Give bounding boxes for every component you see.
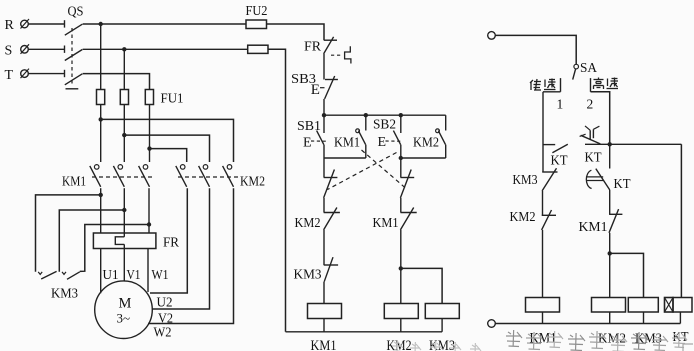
wire W branch to KM3 contact — [80, 225, 149, 272]
time relay KT delay arc symbol — [586, 169, 610, 190]
label high speed — [594, 78, 619, 90]
button interlock SB2 NC in KM1 branch — [324, 170, 338, 198]
svg-text:KM2: KM2 — [240, 175, 265, 190]
coil KT box with cross — [665, 298, 674, 313]
svg-text:E: E — [378, 135, 387, 150]
wire W1 to motor — [147, 249, 149, 293]
svg-text:FU1: FU1 — [161, 92, 184, 107]
svg-text:SA: SA — [580, 61, 598, 76]
switch QS pole R — [65, 20, 83, 35]
KM1 linkage dashed — [92, 176, 152, 178]
svg-text:W1: W1 — [152, 267, 169, 282]
node SB2 branch — [399, 113, 403, 117]
node S drop junction — [122, 47, 126, 51]
wire node to SB2 — [400, 115, 402, 133]
node V branch to KM3 — [122, 208, 126, 212]
contact KM2 interlock NC — [324, 208, 340, 230]
wire phase1 below FU1 — [100, 105, 102, 163]
coil KM2 — [384, 304, 418, 319]
svg-text:3~: 3~ — [117, 311, 131, 326]
watermark corner mark — [683, 344, 693, 351]
svg-text:SB2: SB2 — [373, 118, 396, 133]
svg-text:T: T — [5, 68, 14, 83]
SB2 actuator E- — [378, 135, 401, 150]
wire KM1 interlock to KM2 coil — [400, 230, 402, 304]
svg-text:KM3: KM3 — [513, 172, 538, 187]
KM2 linkage dashed — [178, 176, 238, 178]
svg-text:KT: KT — [614, 176, 632, 191]
wire T after QS — [83, 74, 150, 90]
wire branch to KM3 coil — [401, 268, 442, 303]
button SB2 normally open start — [393, 131, 400, 145]
wire SB2/KM2 bottom join — [401, 157, 446, 159]
wire control bottom bus — [286, 331, 443, 333]
svg-text:1: 1 — [557, 97, 564, 112]
QS linkage bottom bar — [66, 88, 79, 90]
input terminal S — [21, 44, 30, 54]
wire left branch to interlock — [323, 158, 325, 178]
wire KT coil to bus — [679, 312, 681, 324]
wire KM3 NC to KM1 coil — [323, 282, 325, 304]
svg-text:KM1: KM1 — [579, 219, 608, 234]
coil KM2 right — [592, 298, 626, 313]
wire U branch to KM3 contact — [36, 195, 101, 272]
time relay KT delayed contact fork symbol — [580, 126, 601, 144]
wire position 1 to branch — [543, 91, 561, 93]
contactor KM1 pole 2 — [113, 165, 124, 187]
wire SB1 to join — [323, 145, 325, 158]
svg-text:KM2: KM2 — [510, 209, 536, 224]
wire V2 from motor — [152, 188, 209, 309]
wire KM1 coil right to bus — [542, 312, 544, 324]
contact KM1 NC high branch — [609, 209, 622, 233]
wire FU2 lower to bottom bus — [268, 49, 286, 332]
wire FR to SB3 — [323, 54, 325, 80]
coil KM1 — [308, 304, 342, 319]
svg-text:E: E — [311, 82, 320, 98]
wire KM2 interlock to KM3 NC — [323, 230, 325, 265]
terminal right bottom — [488, 320, 496, 328]
node KM3 coil right branch — [608, 251, 612, 255]
svg-text:KM1: KM1 — [311, 338, 337, 351]
svg-text:U1: U1 — [103, 267, 119, 282]
contactor KM3 shorting contact 2 — [62, 272, 80, 280]
input terminal R — [21, 19, 30, 29]
SA position 2 contact — [590, 78, 592, 92]
contactor KM2 pole 1 — [176, 165, 187, 187]
wire branch to KM3 coil right — [610, 253, 644, 297]
wire phase2 below FU1 — [123, 105, 125, 163]
svg-text:FR: FR — [163, 236, 180, 251]
wire KM2 NC to KM1 coil right — [542, 230, 544, 298]
svg-text:KM1: KM1 — [373, 216, 399, 231]
svg-text:E: E — [303, 136, 312, 151]
wire R drop to FU1 — [100, 24, 102, 90]
QS linkage dashed — [71, 28, 73, 85]
node KM3 coil branch — [399, 266, 403, 270]
svg-text:KT: KT — [585, 150, 603, 165]
wire KT NC to KM3 NC — [542, 92, 544, 172]
svg-text:KM1: KM1 — [334, 135, 360, 150]
contactor KM2 pole 2 — [199, 165, 210, 187]
button interlock SB1 NC in KM2 branch — [400, 170, 414, 198]
svg-text:KM2: KM2 — [387, 338, 412, 351]
wire phase1 branch to KM2 pole3 — [101, 119, 234, 162]
contactor KM2 pole 3 — [223, 165, 234, 187]
wire T terminal to QS — [28, 73, 64, 75]
wire SB2 to join — [400, 145, 402, 158]
node phase3 to KM2 branch — [147, 146, 151, 150]
wire rail corner to KM2 aux — [445, 115, 447, 130]
contact KM3 NC right — [542, 168, 557, 191]
node SB2 join — [399, 156, 403, 160]
contact KM1 auxiliary NO — [356, 129, 366, 145]
wire SB3 to node A — [323, 99, 325, 115]
wire S after QS to FU2 — [83, 48, 248, 50]
contactor KM3 shorting contact 1 — [38, 271, 56, 279]
svg-text:KM1: KM1 — [62, 175, 86, 190]
switch QS pole T — [65, 70, 83, 85]
node A SB1 branch — [322, 113, 326, 117]
contactor KM1 pole 1 — [90, 165, 101, 187]
wire KM3 coil to bus — [441, 319, 443, 332]
wire right bottom bus — [495, 323, 680, 325]
svg-text:KM3: KM3 — [294, 268, 322, 283]
wire far right drop to KT coil — [680, 144, 682, 297]
wire KM1 coil to bus — [323, 319, 325, 332]
svg-text:M: M — [119, 296, 132, 312]
wire right branch to interlock — [400, 158, 402, 178]
wire KM1 aux to join — [365, 145, 367, 158]
wire V branch to KM3 contact — [59, 210, 124, 272]
wire high branch to delay contact — [609, 144, 611, 168]
wire node A to SB1 — [323, 115, 325, 133]
fuse FU2 lower — [248, 45, 268, 53]
svg-text:KT: KT — [551, 153, 569, 168]
contact KM2 auxiliary NO — [436, 129, 446, 145]
svg-text:2: 2 — [587, 97, 594, 112]
SB3 actuator E- — [311, 82, 325, 98]
wire KM1 pole2 to FR — [123, 188, 125, 237]
svg-text:S: S — [5, 44, 13, 59]
FR heater element — [115, 237, 124, 245]
wire S terminal to QS — [28, 48, 64, 50]
svg-text:R: R — [5, 18, 15, 33]
button SB1 normally open start — [317, 131, 324, 145]
wire phase3 branch to KM2 pole1 — [150, 149, 187, 162]
wire to KM1 aux contact — [365, 115, 367, 130]
wire V1 to motor upper — [123, 244, 125, 281]
relay contact KT NC low speed branch — [543, 144, 568, 153]
wire KM2 coil to bus — [400, 319, 402, 332]
wire W2 from motor — [148, 188, 234, 323]
contact KM3 NC in KM1 branch — [324, 257, 338, 282]
wire U1 to motor — [100, 249, 102, 294]
wire KM1 NC to KM2 coil right — [609, 233, 611, 298]
wire U2 from motor — [150, 188, 187, 293]
wire between interlocks left — [323, 198, 325, 213]
wire KT row to far right — [585, 143, 681, 145]
node KT junction high branch — [608, 142, 612, 146]
FR contact linkage dashes — [331, 54, 341, 56]
svg-text:FU2: FU2 — [246, 4, 268, 19]
wire KM1 pole3 to FR — [148, 188, 150, 233]
wire S drop to FU1 — [123, 49, 125, 89]
svg-text:KM2: KM2 — [295, 216, 321, 231]
wire KM3 NC to KM2 NC — [542, 191, 544, 215]
watermark text partial — [392, 330, 687, 351]
selector SA blade — [573, 69, 576, 80]
input terminal T — [21, 69, 30, 79]
coil KT body box — [673, 298, 692, 313]
button SB3 normally closed stop — [325, 76, 338, 99]
fuse FU1 pole 3 — [145, 90, 153, 105]
wire control top rail — [324, 114, 446, 116]
contact KM2 NC right — [542, 210, 556, 230]
thermal relay FR box — [93, 233, 155, 249]
wire R after QS to FU2 — [83, 23, 246, 25]
wire terminal to SA — [495, 35, 576, 64]
fuse FU1 pole 2 — [120, 90, 128, 105]
wire KM2 aux to join — [445, 145, 447, 158]
selector switch SA pivot — [574, 64, 579, 69]
contact KM1 interlock NC — [400, 208, 416, 230]
coil KM1 right — [526, 298, 560, 313]
mechanical interlock dashed 2 — [328, 153, 397, 190]
coil KM3 — [425, 304, 459, 319]
motor M circle — [95, 281, 153, 339]
svg-text:FR: FR — [304, 40, 322, 55]
svg-text:KM3: KM3 — [51, 287, 78, 302]
node W branch to KM3 — [147, 222, 151, 226]
svg-text:W2: W2 — [154, 325, 172, 340]
coil KM3 right — [628, 298, 658, 313]
wire between interlocks right — [400, 198, 402, 213]
wire KM2 coil right to bus — [609, 312, 611, 324]
svg-text:V1: V1 — [127, 267, 141, 282]
wire KM3 coil right to bus — [643, 312, 645, 324]
node phase2 to KM2 branch — [122, 133, 126, 137]
fuse FU1 pole 1 — [97, 90, 105, 105]
wire KM1 pole1 to FR — [100, 188, 102, 233]
svg-text:KM2: KM2 — [413, 135, 439, 150]
terminal right top — [488, 32, 496, 40]
switch QS pole S — [65, 46, 83, 61]
mechanical interlock dashed 1 — [362, 150, 406, 188]
wire position 2 to branch — [591, 92, 610, 145]
svg-text:U2: U2 — [157, 295, 173, 310]
wire SB1/KM1 bottom join — [324, 157, 366, 159]
wire phase3 below FU1 — [149, 105, 151, 163]
label low speed — [530, 79, 556, 91]
wire phase2 branch to KM2 pole2 — [124, 135, 209, 162]
wire delay contact to KM1 NC — [609, 190, 611, 214]
node KM1 aux branch — [364, 113, 368, 117]
SB1 actuator E- — [303, 136, 326, 151]
svg-text:QS: QS — [68, 5, 84, 20]
node U branch to KM3 — [99, 193, 103, 197]
wire R terminal to QS — [28, 23, 64, 25]
node phase1 to KM2 branch — [99, 117, 103, 121]
FR thermal element symbol — [345, 46, 351, 63]
SA position 1 contact — [560, 78, 562, 92]
node R drop junction — [99, 22, 103, 26]
wire FU2 upper to control — [267, 24, 325, 40]
thermal contact FR normally closed — [324, 37, 337, 54]
fuse FU2 upper — [246, 20, 267, 29]
svg-text:KM3: KM3 — [429, 338, 455, 351]
contactor KM1 pole 3 — [139, 165, 150, 187]
